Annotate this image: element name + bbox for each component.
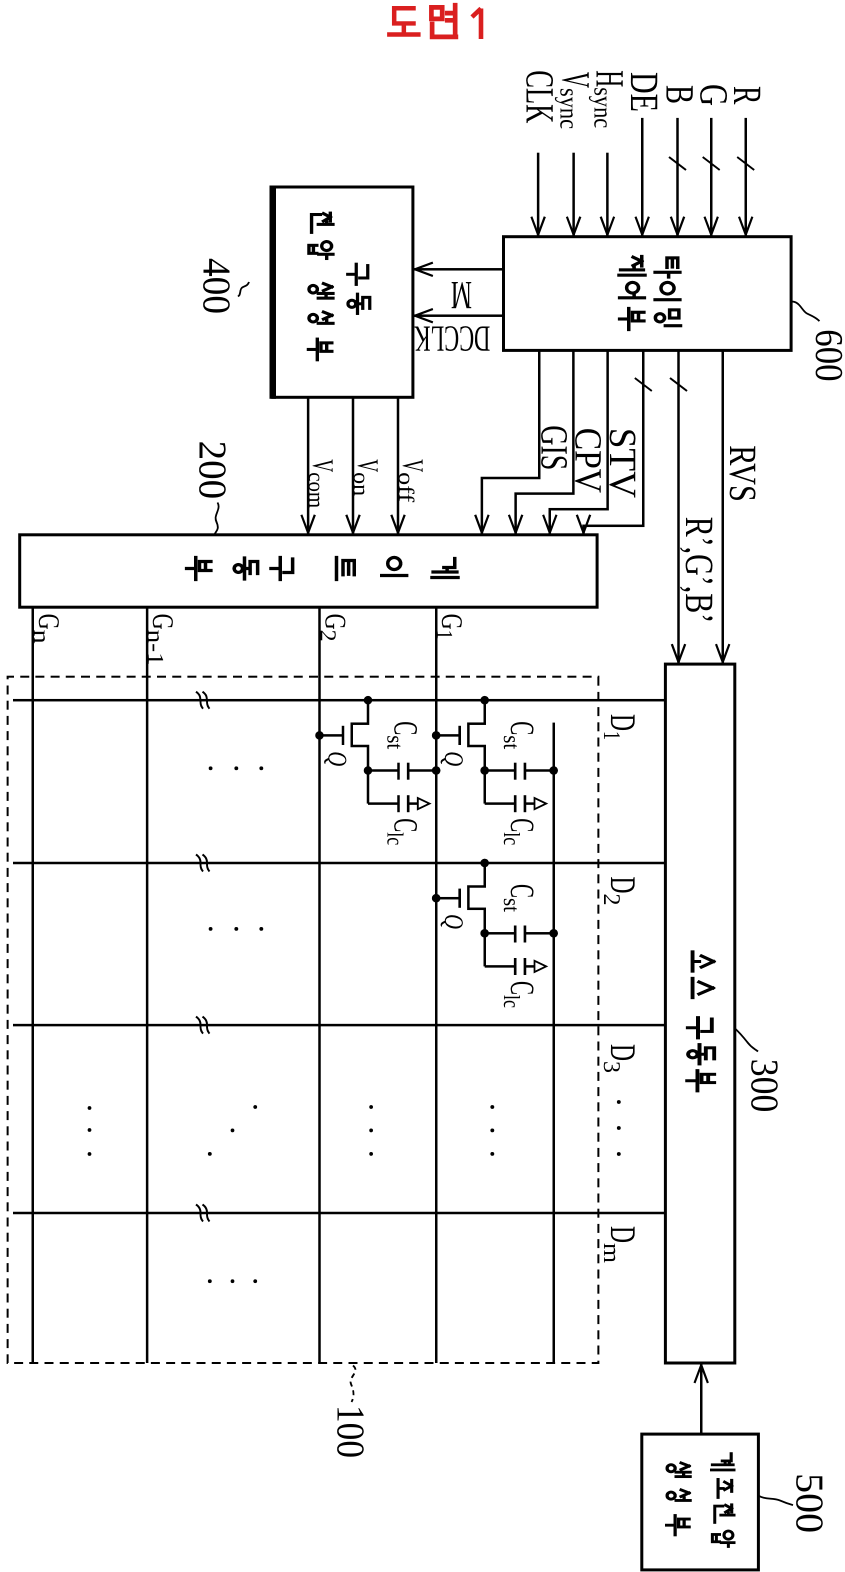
bus slash bbox=[737, 157, 754, 170]
common electrode symbol ('1', '1') bbox=[535, 798, 547, 809]
capacitor Clc ('1', '1') plate2 bbox=[524, 795, 527, 812]
arrowhead DCCLK into voltage generator bbox=[415, 309, 433, 322]
storage common line bbox=[552, 723, 555, 1363]
junction gate tap Q('2', '1') bbox=[432, 894, 441, 903]
capacitor Clc ('1', '1') plate1 bbox=[514, 795, 517, 812]
junction pixel node ('1', '1') bbox=[480, 766, 489, 775]
arrowhead into source driver right edge bbox=[695, 1365, 708, 1383]
wire Cst to upper line ('1', '2') bbox=[408, 769, 436, 772]
arrowhead Hsync bbox=[601, 217, 614, 235]
transistor Q('2', '1') gate stub bbox=[436, 897, 460, 900]
junction Cst top ('1', '1') bbox=[549, 766, 558, 775]
svg-text:400: 400 bbox=[195, 258, 239, 314]
svg-text:R’,G’,B’: R’,G’,B’ bbox=[677, 517, 722, 624]
data line D1 bbox=[13, 699, 665, 702]
gate line G2 bbox=[318, 607, 321, 1363]
timing controller box U600 bbox=[504, 237, 792, 351]
data line D2 bbox=[13, 862, 665, 865]
common electrode symbol ('1', '2') bbox=[418, 798, 430, 809]
capacitor Cst ('1', '1') plate1 bbox=[514, 763, 517, 780]
text 전압 생성부 bbox=[308, 213, 332, 360]
svg-text:Dm: Dm bbox=[598, 1226, 643, 1263]
svg-text:Cst: Cst bbox=[499, 884, 540, 913]
transistor Q('1', '2') channel path bbox=[352, 700, 368, 770]
ellipsis below pixel D1 column bbox=[209, 766, 264, 770]
bus slash bbox=[635, 378, 652, 391]
arrowhead B into timing controller bbox=[671, 217, 684, 235]
wire Cst to upper line ('2', '1') bbox=[525, 932, 554, 935]
wire Von bbox=[352, 397, 355, 535]
junction Cst top ('1', '2') bbox=[432, 766, 441, 775]
svg-text:D2: D2 bbox=[598, 877, 643, 906]
svg-text:Vcom: Vcom bbox=[304, 459, 339, 508]
transistor Q('1', '2') gate bar bbox=[342, 726, 345, 745]
leader to 300 bbox=[735, 1028, 758, 1051]
common electrode symbol ('2', '1') bbox=[535, 961, 547, 972]
arrowhead M into voltage generator bbox=[415, 263, 433, 276]
capacitor Cst ('1', '1') plate2 bbox=[524, 763, 527, 780]
arrowhead R'G'B' into source driver bbox=[672, 644, 685, 662]
junction data tap Q('1', '1') bbox=[480, 696, 489, 705]
svg-text:Cst: Cst bbox=[499, 721, 540, 750]
arrowhead Vsync bbox=[567, 217, 580, 235]
svg-text:D3: D3 bbox=[598, 1044, 643, 1073]
arrowhead GIS bbox=[475, 515, 488, 533]
wire 500 to source driver bbox=[700, 1363, 703, 1434]
leader to 200 bbox=[215, 503, 219, 535]
wire Cst to upper line ('1', '1') bbox=[525, 769, 554, 772]
svg-text:Voff: Voff bbox=[394, 459, 429, 503]
title 도면1 bbox=[389, 8, 418, 34]
gate line G1 bbox=[435, 607, 438, 1363]
wire gate control bus bbox=[584, 350, 644, 534]
wire input B bbox=[676, 118, 679, 237]
wire R'G'B' bbox=[677, 350, 680, 664]
capacitor Clc ('1', '2') plate2 bbox=[407, 795, 410, 812]
bus slash bbox=[703, 157, 720, 170]
wire input Vsync bbox=[572, 153, 575, 237]
svg-text:Von: Von bbox=[349, 459, 384, 496]
leader to 500 bbox=[759, 1496, 793, 1505]
wire Clc to common ('2', '1') bbox=[525, 965, 534, 968]
arrowhead CPV bbox=[509, 515, 522, 533]
capacitor Clc ('2', '1') plate2 bbox=[524, 958, 527, 975]
text 게이트 구동부 vertical bbox=[187, 558, 458, 580]
wire Vcom bbox=[307, 397, 310, 535]
svg-text:Q: Q bbox=[323, 751, 353, 766]
capacitor Cst ('2', '1') plate2 bbox=[524, 926, 527, 943]
svg-text:M: M bbox=[451, 273, 472, 318]
break symbol on data line bbox=[203, 1017, 210, 1034]
bus slash bbox=[670, 378, 687, 391]
break symbol on data line bbox=[203, 692, 210, 709]
wire input G bbox=[710, 118, 713, 237]
svg-text:500: 500 bbox=[788, 1473, 832, 1533]
svg-text:Cst: Cst bbox=[383, 721, 424, 750]
svg-text:DCCLK: DCCLK bbox=[414, 318, 490, 359]
text 생성부 bbox=[667, 1463, 691, 1535]
svg-text:Clc: Clc bbox=[499, 981, 540, 1008]
leader to 100 bbox=[351, 1366, 356, 1403]
transistor Q('2', '1') gate bar bbox=[458, 889, 461, 908]
break symbol on data line bbox=[203, 1205, 210, 1222]
capacitor Clc ('2', '1') plate1 bbox=[514, 958, 517, 975]
grayscale voltage generator box U500 bbox=[642, 1434, 759, 1570]
arrowhead R into timing controller bbox=[739, 217, 752, 235]
wire Clc vertical ('1', '1') bbox=[485, 802, 516, 805]
wire node to Clc ('1', '1') bbox=[483, 771, 486, 804]
svg-text:600: 600 bbox=[807, 329, 845, 381]
ellipsis data label row bbox=[617, 1100, 621, 1156]
svg-text:Q: Q bbox=[439, 914, 469, 929]
break symbol on data line bbox=[203, 855, 210, 872]
svg-text:Gn: Gn bbox=[29, 614, 65, 645]
junction gate tap Q('1', '2') bbox=[315, 731, 324, 740]
capacitor Clc ('1', '2') plate1 bbox=[397, 795, 400, 812]
arrowhead gate control bus bbox=[577, 515, 590, 533]
text 계조전압 bbox=[711, 1454, 734, 1547]
wire input CLK bbox=[537, 153, 540, 237]
wire Clc vertical ('1', '2') bbox=[368, 802, 399, 805]
gate driver box U200 bbox=[20, 535, 597, 607]
svg-text:Q: Q bbox=[439, 751, 469, 766]
leader to 600 bbox=[793, 302, 820, 322]
thick bottom edge of 400 box bbox=[270, 186, 277, 399]
gate line Gn-1 bbox=[146, 607, 149, 1363]
svg-text:G1: G1 bbox=[432, 614, 468, 640]
title digit 1 bbox=[472, 9, 481, 40]
capacitor Cst ('1', '2') plate2 bbox=[407, 763, 410, 780]
ellipsis below pixel D2 column bbox=[209, 927, 264, 931]
text 소스 구동부 bbox=[687, 952, 714, 1091]
wire Clc to common ('1', '2') bbox=[408, 802, 417, 805]
arrowhead DE bbox=[636, 217, 649, 235]
arrowhead Voff into gate driver bbox=[391, 515, 404, 533]
svg-text:D1: D1 bbox=[598, 714, 643, 740]
wire Clc vertical ('2', '1') bbox=[485, 965, 516, 968]
wire STV bbox=[550, 350, 608, 534]
wire Voff bbox=[397, 397, 400, 535]
wire DCCLK bbox=[413, 314, 504, 317]
svg-text:Clc: Clc bbox=[499, 818, 540, 845]
transistor Q('1', '1') gate bar bbox=[458, 726, 461, 745]
svg-text:200: 200 bbox=[191, 441, 235, 500]
svg-text:GIS: GIS bbox=[533, 425, 575, 470]
text 구동 bbox=[348, 264, 370, 313]
wire CPV bbox=[516, 350, 574, 534]
svg-text:RVS: RVS bbox=[721, 445, 763, 502]
junction gate tap Q('1', '1') bbox=[432, 731, 441, 740]
junction pixel node ('2', '1') bbox=[480, 929, 489, 938]
LCD panel dashed border 100 bbox=[8, 677, 599, 1363]
wire input DE bbox=[641, 118, 644, 237]
capacitor Cst ('1', '2') plate1 bbox=[397, 763, 400, 780]
text 제어부 bbox=[619, 256, 645, 329]
ellipsis Dm column bbox=[208, 1279, 257, 1283]
svg-text:CLK: CLK bbox=[518, 70, 563, 123]
svg-text:G2: G2 bbox=[316, 614, 352, 642]
transistor Q('1', '1') channel path bbox=[468, 700, 484, 770]
svg-text:Gn-1: Gn-1 bbox=[143, 614, 179, 666]
wire input R bbox=[744, 118, 747, 237]
driving voltage generator box U400 bbox=[273, 187, 413, 397]
transistor Q('1', '1') gate stub bbox=[436, 734, 460, 737]
arrowhead G into timing controller bbox=[705, 217, 718, 235]
wire GIS bbox=[482, 350, 539, 534]
wire node to Cst ('1', '1') bbox=[485, 769, 516, 772]
bus slash bbox=[669, 157, 686, 170]
wire node to Clc ('1', '2') bbox=[367, 771, 370, 804]
arrowhead RVS into source driver bbox=[716, 644, 729, 662]
wire input Hsync bbox=[606, 153, 609, 237]
figure title 도면1 bbox=[0, 0, 845, 65]
leader to 400 bbox=[238, 282, 249, 297]
data line Dm bbox=[13, 1212, 665, 1215]
svg-text:Clc: Clc bbox=[383, 818, 424, 845]
arrowhead CLK bbox=[531, 217, 544, 235]
wire node to Cst ('1', '2') bbox=[368, 769, 399, 772]
ellipsis G1 row bbox=[490, 1105, 494, 1156]
wire node to Cst ('2', '1') bbox=[485, 932, 516, 935]
gate line Gn bbox=[32, 607, 35, 1363]
data line D3 bbox=[13, 1024, 665, 1027]
source driver box U300 bbox=[665, 664, 734, 1363]
ellipsis diagonal bbox=[208, 1105, 257, 1156]
svg-text:300: 300 bbox=[743, 1059, 787, 1113]
junction pixel node ('1', '2') bbox=[364, 766, 373, 775]
wire RVS bbox=[721, 350, 724, 664]
junction Cst top ('2', '1') bbox=[549, 929, 558, 938]
wire Clc to common ('1', '1') bbox=[525, 802, 534, 805]
transistor Q('2', '1') channel path bbox=[468, 863, 484, 933]
wire M bbox=[413, 268, 504, 271]
wire node to Clc ('2', '1') bbox=[483, 933, 486, 966]
transistor Q('1', '2') gate stub bbox=[320, 734, 344, 737]
ellipsis G2 row bbox=[369, 1105, 373, 1156]
junction data tap Q('1', '2') bbox=[364, 696, 373, 705]
arrowhead Von into gate driver bbox=[346, 515, 359, 533]
capacitor Cst ('2', '1') plate1 bbox=[514, 926, 517, 943]
text 타이밍 bbox=[655, 258, 680, 326]
svg-text:100: 100 bbox=[329, 1405, 373, 1458]
arrowhead Vcom into gate driver bbox=[301, 515, 314, 533]
ellipsis bottom row bbox=[88, 1106, 92, 1156]
junction data tap Q('2', '1') bbox=[480, 859, 489, 868]
arrowhead STV bbox=[543, 515, 556, 533]
